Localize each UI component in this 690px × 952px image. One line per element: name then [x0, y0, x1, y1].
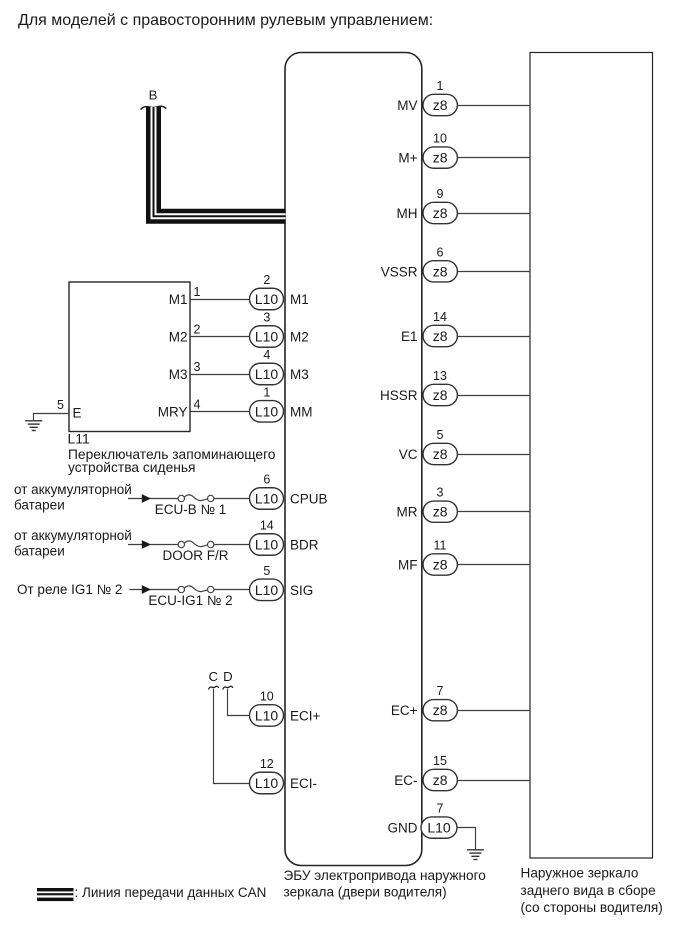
svg-text:L10: L10	[255, 366, 279, 382]
wire MH to mirror assembly	[457, 213, 530, 215]
svg-text:z8: z8	[433, 702, 448, 718]
fuse DOOR F/R	[178, 541, 214, 548]
svg-text:z8: z8	[433, 205, 448, 221]
svg-text:MM: MM	[290, 404, 313, 419]
svg-text:M1: M1	[169, 292, 188, 307]
arrow (power feed)	[142, 540, 151, 549]
svg-text:1: 1	[194, 285, 201, 299]
connector z8 (VSSR)	[423, 261, 457, 282]
svg-text:батареи: батареи	[14, 498, 65, 513]
svg-text:(со стороны водителя): (со стороны водителя)	[521, 900, 663, 915]
svg-text:5: 5	[437, 428, 444, 442]
wire relay to fuse ECU-IG1	[130, 589, 178, 591]
svg-text:M1: M1	[290, 292, 309, 307]
wire battery to fuse ECU-B	[128, 498, 178, 500]
svg-text:VC: VC	[399, 447, 418, 462]
svg-text:заднего вида в сборе: заднего вида в сборе	[521, 883, 656, 898]
svg-text:EC-: EC-	[394, 773, 417, 788]
svg-text:1: 1	[437, 79, 444, 93]
svg-text:MH: MH	[397, 206, 418, 221]
svg-text:z8: z8	[433, 328, 448, 344]
ground (L11 E)	[25, 421, 42, 431]
wire VC to mirror assembly	[457, 454, 530, 456]
svg-text:9: 9	[437, 187, 444, 201]
ECU box U1 (ЭБУ электропривода наружного зеркала)	[285, 53, 422, 866]
svg-text:L10: L10	[255, 491, 279, 507]
svg-text:10: 10	[260, 689, 274, 703]
wire MR to mirror assembly	[457, 511, 530, 513]
svg-text:CPUB: CPUB	[290, 492, 328, 507]
wire E to ground	[34, 414, 70, 421]
node B break symbol	[141, 106, 167, 109]
svg-text:MF: MF	[398, 558, 418, 573]
svg-text:4: 4	[263, 348, 270, 362]
svg-text:L10: L10	[255, 403, 279, 419]
svg-text:z8: z8	[433, 504, 448, 520]
legend: CAN symbol	[37, 888, 74, 901]
connector z8 (EC+)	[423, 700, 457, 721]
connector z8 (MR)	[423, 501, 457, 522]
svg-text:MRY: MRY	[158, 404, 188, 419]
svg-text:B: B	[149, 88, 158, 103]
svg-text:D: D	[223, 669, 233, 684]
svg-text:MR: MR	[397, 505, 418, 520]
svg-text:2: 2	[194, 323, 201, 337]
wire C to ECI-	[214, 689, 251, 784]
wire EC+ to mirror assembly	[457, 710, 530, 712]
svg-text:4: 4	[194, 397, 201, 411]
svg-text:ECU-B № 1: ECU-B № 1	[155, 502, 227, 517]
svg-text:z8: z8	[433, 446, 448, 462]
connector z8 (HSSR)	[423, 384, 457, 405]
svg-text:11: 11	[434, 539, 447, 553]
svg-text:3: 3	[437, 486, 444, 500]
svg-text:зеркала (двери водителя): зеркала (двери водителя)	[284, 885, 447, 900]
svg-text:14: 14	[260, 519, 274, 533]
connector z8 (E1)	[423, 325, 457, 346]
svg-text:2: 2	[263, 273, 270, 287]
svg-text:L10: L10	[255, 707, 279, 723]
svg-text:ECI-: ECI-	[290, 776, 317, 791]
wire MRY (L11 pin4 to connector)	[190, 411, 250, 413]
svg-text:L10: L10	[427, 820, 451, 836]
svg-text:3: 3	[263, 311, 270, 325]
svg-text:E1: E1	[401, 329, 418, 344]
svg-text:M3: M3	[169, 367, 188, 382]
wire M1 (L11 pin1 to connector)	[190, 299, 250, 301]
svg-text:от аккумуляторной: от аккумуляторной	[14, 528, 132, 543]
wire EC- to mirror assembly	[457, 780, 530, 782]
svg-text:От реле IG1 № 2: От реле IG1 № 2	[17, 582, 122, 597]
svg-text:MV: MV	[397, 98, 417, 113]
svg-text:z8: z8	[433, 772, 448, 788]
wire fuse to connector CPUB	[214, 498, 250, 500]
connector L10 (M1)	[250, 288, 284, 310]
svg-text:13: 13	[433, 369, 447, 383]
wire M2 (L11 pin2 to connector)	[190, 336, 250, 338]
arrow (power feed)	[142, 494, 151, 503]
svg-text:z8: z8	[433, 387, 448, 403]
node D break symbol	[223, 686, 233, 689]
connector L10 (ECI+)	[250, 705, 284, 727]
svg-text:14: 14	[433, 310, 447, 324]
wire VSSR to mirror assembly	[457, 271, 530, 273]
svg-text:10: 10	[433, 132, 447, 146]
svg-text:z8: z8	[433, 97, 448, 113]
ground (ECU GND)	[467, 850, 484, 860]
wire D to ECI+	[228, 689, 251, 716]
svg-text:z8: z8	[433, 263, 448, 279]
svg-text:EC+: EC+	[391, 703, 418, 718]
svg-text:L10: L10	[255, 775, 279, 791]
svg-text:z8: z8	[433, 150, 448, 166]
svg-text:L10: L10	[255, 537, 279, 553]
connector z8 (MF)	[423, 554, 457, 575]
connector z8 (MV)	[423, 94, 457, 115]
connector L10 (M3)	[250, 363, 284, 385]
svg-text:L10: L10	[255, 291, 279, 307]
fuse ECU-B No.1	[178, 495, 214, 502]
wire MF to mirror assembly	[457, 564, 530, 566]
svg-text:от аккумуляторной: от аккумуляторной	[14, 482, 132, 497]
svg-text:z8: z8	[433, 557, 448, 573]
wire MV to mirror assembly	[457, 105, 530, 107]
connector L10 (ECI-)	[250, 772, 284, 794]
svg-text:: Линия передачи данных CAN: : Линия передачи данных CAN	[75, 885, 267, 900]
svg-text:GND: GND	[388, 821, 418, 836]
svg-text:устройства сиденья: устройства сиденья	[68, 460, 196, 475]
svg-text:Для моделей с правосторонним р: Для моделей с правосторонним рулевым упр…	[18, 12, 433, 29]
wire HSSR to mirror assembly	[457, 395, 530, 397]
svg-text:15: 15	[433, 754, 447, 768]
svg-text:M2: M2	[169, 330, 188, 345]
svg-text:E: E	[73, 406, 82, 421]
svg-text:3: 3	[194, 360, 201, 374]
CAN bus wire B (thick shielded line into ECU)	[152, 107, 286, 218]
svg-text:SIG: SIG	[290, 583, 313, 598]
svg-text:5: 5	[263, 564, 270, 578]
svg-text:BDR: BDR	[290, 538, 319, 553]
connector L10 (CPUB)	[250, 488, 284, 510]
svg-text:VSSR: VSSR	[381, 264, 418, 279]
svg-text:12: 12	[260, 757, 274, 771]
connector L10 (MM)	[250, 401, 284, 423]
wire battery to fuse DOOR F/R	[128, 544, 178, 546]
svg-text:7: 7	[437, 802, 444, 816]
connector z8 (MH)	[423, 202, 457, 223]
svg-text:6: 6	[437, 245, 444, 259]
connector z8 (EC-)	[423, 769, 457, 790]
connector L10 (GND)	[421, 817, 457, 838]
svg-text:батареи: батареи	[14, 544, 65, 559]
connector z8 (VC)	[423, 443, 457, 464]
connector L10 (BDR)	[250, 534, 284, 556]
svg-text:M2: M2	[290, 330, 309, 345]
wire M3 (L11 pin3 to connector)	[190, 374, 250, 376]
connector L10 (SIG)	[250, 579, 284, 601]
wire M+ to mirror assembly	[457, 157, 530, 159]
connector L10 (M2)	[250, 326, 284, 348]
svg-text:L11: L11	[68, 431, 91, 447]
svg-text:L10: L10	[255, 329, 279, 345]
svg-text:M+: M+	[398, 151, 417, 166]
switch box L11 (Переключатель запоминающего устройства сиденья)	[69, 282, 190, 432]
svg-text:L10: L10	[255, 582, 279, 598]
svg-text:5: 5	[57, 398, 64, 412]
wire E1 to mirror assembly	[457, 336, 530, 338]
svg-text:HSSR: HSSR	[380, 388, 418, 403]
svg-text:ECU-IG1 № 2: ECU-IG1 № 2	[148, 593, 232, 608]
wire GND to ground	[457, 828, 476, 850]
svg-text:DOOR F/R: DOOR F/R	[163, 548, 229, 563]
svg-text:C: C	[209, 669, 219, 684]
wire fuse to connector SIG	[214, 589, 250, 591]
svg-text:M3: M3	[290, 367, 309, 382]
svg-text:7: 7	[437, 684, 444, 698]
svg-text:1: 1	[263, 385, 270, 399]
mirror assembly box	[530, 53, 653, 859]
svg-text:6: 6	[263, 473, 270, 487]
svg-text:ECI+: ECI+	[290, 708, 321, 723]
connector z8 (M+)	[423, 147, 457, 168]
arrow (power feed)	[142, 585, 151, 594]
wire fuse to connector BDR	[214, 544, 250, 546]
svg-text:ЭБУ электропривода наружного: ЭБУ электропривода наружного	[284, 868, 486, 883]
fuse ECU-IG1 No.2	[178, 586, 214, 593]
svg-text:Наружное зеркало: Наружное зеркало	[521, 866, 639, 881]
node C break symbol	[209, 686, 219, 689]
